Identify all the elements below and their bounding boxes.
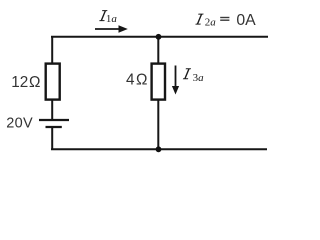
svg-text:1a: 1a [106, 13, 118, 25]
svg-text:2a: 2a [205, 17, 217, 29]
svg-text:12Ω: 12Ω [11, 74, 40, 91]
svg-text:20V: 20V [6, 116, 33, 132]
svg-text:0A: 0A [236, 12, 256, 29]
svg-text:3a: 3a [193, 72, 205, 84]
svg-text:4Ω: 4Ω [126, 71, 147, 88]
